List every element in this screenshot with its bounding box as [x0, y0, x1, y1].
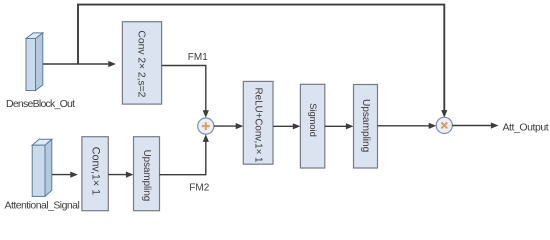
- wire Upsampling to times: [378, 123, 437, 129]
- svg-text:Attentional_Signal: Attentional_Signal: [5, 200, 80, 212]
- svg-text:Conv 2× 2,s=2: Conv 2× 2,s=2: [135, 30, 146, 97]
- wire Attentional_Signal to Conv1x1: [52, 172, 78, 178]
- svg-text:Conv,1× 1: Conv,1× 1: [90, 147, 102, 195]
- box Sigmoid: [300, 84, 324, 168]
- box ReLU+Conv: [243, 81, 273, 164]
- svg-text:Upsampling: Upsampling: [141, 150, 152, 202]
- wire Conv1x1 to Upsampling bottom: [108, 172, 133, 178]
- cuboid Attentional_Signal: [32, 139, 52, 196]
- conv 2x2 box: [122, 22, 161, 104]
- wire times to output: [452, 122, 498, 128]
- cuboid DenseBlock_Out: [26, 33, 43, 91]
- svg-text:Att_Output: Att_Output: [503, 122, 549, 134]
- wire DenseBlock_Out to Conv: [43, 61, 116, 67]
- svg-text:Sigmoid: Sigmoid: [308, 103, 319, 137]
- box Conv 1x1: [82, 137, 108, 211]
- wire FM1: [162, 66, 209, 118]
- wire FM2: [160, 134, 209, 174]
- wire plus to ReLU: [214, 123, 244, 129]
- svg-text:FM1: FM1: [188, 52, 208, 63]
- wire Sigmoid to Upsampling: [325, 123, 354, 129]
- wire ReLU to Sigmoid: [273, 123, 300, 129]
- svg-text:Upsampling: Upsampling: [360, 99, 371, 153]
- svg-text:FM2: FM2: [189, 183, 209, 194]
- svg-text:ReLU+Conv,1× 1: ReLU+Conv,1× 1: [253, 88, 264, 163]
- node times circle: [436, 117, 452, 133]
- box Upsampling bottom: [134, 137, 160, 211]
- box Upsampling top: [354, 85, 378, 169]
- node plus circle: [198, 118, 214, 134]
- svg-text:DenseBlock_Out: DenseBlock_Out: [6, 98, 75, 110]
- wire top feedback: [78, 5, 447, 118]
